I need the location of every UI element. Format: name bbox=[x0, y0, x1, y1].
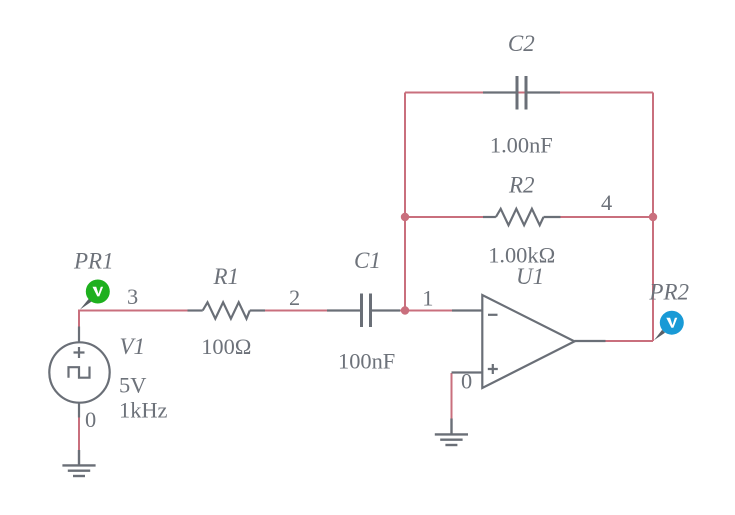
svg-text:V1: V1 bbox=[120, 334, 146, 359]
wire node 1 horizontal (C1 to U1 inverting input) bbox=[400, 310, 452, 312]
svg-text:0: 0 bbox=[461, 369, 472, 394]
svg-text:100nF: 100nF bbox=[338, 348, 395, 373]
svg-text:3: 3 bbox=[127, 284, 138, 309]
svg-text:PR2: PR2 bbox=[648, 280, 689, 305]
capacitor C2 bbox=[483, 76, 560, 110]
wire node 0 (U1 + input to ground) bbox=[451, 373, 453, 419]
svg-text:4: 4 bbox=[601, 190, 612, 215]
svg-text:2: 2 bbox=[289, 285, 300, 310]
wire R2 right node 4 bbox=[560, 216, 653, 218]
capacitor C1 bbox=[327, 294, 400, 328]
wire node 1 left vertical rail bbox=[404, 93, 406, 311]
ground (below V1) bbox=[62, 450, 95, 476]
svg-text:PR1: PR1 bbox=[73, 249, 114, 274]
svg-text:1.00nF: 1.00nF bbox=[490, 133, 553, 158]
svg-text:0: 0 bbox=[85, 407, 96, 432]
probe PR1 bbox=[80, 280, 110, 310]
svg-text:U1: U1 bbox=[516, 264, 544, 289]
resistor R2 bbox=[483, 209, 561, 225]
svg-text:C1: C1 bbox=[354, 248, 381, 273]
wire top rail (C2 branch) bbox=[405, 92, 653, 94]
svg-text:100Ω: 100Ω bbox=[201, 334, 251, 359]
wire node 3 (V1 top to R1) bbox=[79, 311, 188, 328]
svg-text:R2: R2 bbox=[508, 172, 535, 197]
wire right rail node 4 bbox=[652, 93, 654, 342]
junction node 4 (right rail at R2 row) bbox=[649, 213, 657, 221]
voltage source V1 bbox=[49, 327, 109, 418]
pin - (inverting input) bbox=[488, 314, 498, 316]
svg-text:1kHz: 1kHz bbox=[119, 398, 168, 423]
pin + (non-inverting input) bbox=[488, 364, 498, 374]
wire output (U1 to node 4 rail) bbox=[606, 340, 654, 342]
wire node 2 (R1 to C1) bbox=[265, 310, 327, 312]
junction left rail at R2 row bbox=[401, 213, 409, 221]
junction node 1 (left rail at main row) bbox=[401, 306, 409, 314]
probe PR2 bbox=[654, 311, 684, 341]
ground (below U1 + input) bbox=[435, 419, 468, 446]
svg-text:5V: 5V bbox=[119, 373, 146, 398]
wire node 0 (V1 bottom to ground) bbox=[78, 417, 80, 451]
svg-text:C2: C2 bbox=[508, 31, 535, 56]
resistor R1 bbox=[188, 302, 266, 318]
svg-text:R1: R1 bbox=[213, 264, 240, 289]
op-amp U1 bbox=[452, 295, 606, 388]
wire R2 left bbox=[405, 216, 483, 218]
svg-text:1: 1 bbox=[422, 286, 433, 311]
